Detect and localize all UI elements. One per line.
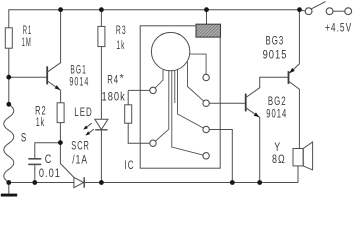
transistor Q1 BG1 bar <box>46 66 48 84</box>
svg-text:V: V <box>346 22 352 35</box>
svg-text:1: 1 <box>76 154 81 167</box>
IC trace to pad R3 <box>178 70 204 128</box>
node top rail electrode <box>204 7 209 12</box>
svg-text:1: 1 <box>102 90 107 103</box>
node BG2 emitter bottom <box>257 180 262 185</box>
svg-text:/: / <box>72 154 74 167</box>
svg-text:G: G <box>272 35 278 48</box>
svg-text:0: 0 <box>39 167 44 180</box>
wire speaker bottom lead <box>297 166 299 183</box>
wire R4 top lead <box>127 90 129 104</box>
svg-text:1: 1 <box>79 76 83 89</box>
svg-text:k: k <box>121 39 124 53</box>
resistor R2 <box>57 103 64 123</box>
svg-text:k: k <box>41 116 45 129</box>
wire pad R2 to BG2 base <box>209 102 245 104</box>
value 1M <box>22 36 31 50</box>
IC trace to pad R2 <box>188 62 204 101</box>
value 0.01 <box>39 167 60 180</box>
IC trace stub <box>174 71 176 103</box>
arrowhead LED 1 <box>83 126 88 130</box>
wire pad R3 to bottom rail <box>209 130 232 183</box>
label BG3 <box>266 35 284 48</box>
svg-text:C: C <box>77 140 82 153</box>
capacitor C plate top <box>28 158 41 160</box>
value 9014 BG2 <box>266 108 286 121</box>
svg-text:2: 2 <box>281 95 286 108</box>
label R1 <box>23 24 32 38</box>
battery terminal circle 1 <box>326 8 333 15</box>
sensor S wavy line <box>4 104 14 182</box>
svg-text:C: C <box>45 153 52 166</box>
svg-text:8: 8 <box>108 90 113 103</box>
wire top rail with left corner down to R1 <box>9 10 300 28</box>
IC pad R4 <box>203 153 209 159</box>
diode LED bar <box>95 129 107 131</box>
svg-text:1: 1 <box>36 116 40 129</box>
label R3 <box>116 24 126 38</box>
svg-text:k: k <box>120 90 125 103</box>
svg-text:5: 5 <box>281 48 286 61</box>
label R2 <box>35 105 46 118</box>
svg-text:R: R <box>116 24 121 38</box>
transistor Q2 BG2 bar <box>245 94 247 112</box>
wire SCR gate <box>60 143 74 178</box>
wire R3 bottom to LED <box>100 47 102 120</box>
resistor R3 top lead <box>100 10 102 27</box>
transistor Q3 BG3 bar <box>288 71 290 84</box>
svg-text:C: C <box>128 159 134 172</box>
svg-text:1: 1 <box>277 108 282 121</box>
svg-text:R: R <box>84 140 89 153</box>
label C <box>45 153 52 166</box>
svg-text:0: 0 <box>269 48 274 61</box>
svg-text:+: + <box>325 22 330 35</box>
IC pad R2 <box>203 100 209 106</box>
svg-text:M: M <box>26 36 31 50</box>
wire BG2 emitter to bottom rail <box>246 108 260 183</box>
svg-text:4: 4 <box>84 76 88 89</box>
label SCR <box>71 140 89 153</box>
svg-text:4: 4 <box>114 74 119 87</box>
thyristor SCR triangle <box>74 177 84 187</box>
label BG1 <box>70 64 85 78</box>
svg-text:G: G <box>274 95 280 108</box>
LED arrow 1 <box>84 123 92 129</box>
resistor R3 <box>98 26 105 46</box>
value 8 ohm <box>272 153 285 167</box>
node sensor top <box>6 102 11 107</box>
IC module board outline <box>140 26 220 168</box>
label S <box>21 132 27 145</box>
svg-text:E: E <box>80 107 85 120</box>
value 9015 <box>263 48 287 61</box>
arrowhead LED 2 <box>85 131 90 135</box>
IC trace to pad L2 <box>156 70 169 141</box>
node LED bottom <box>99 180 104 185</box>
svg-text:L: L <box>74 107 79 120</box>
svg-text:1: 1 <box>55 167 60 180</box>
wire left line down <box>8 77 10 104</box>
wire BG1 collector to top rail <box>47 10 60 72</box>
IC pad R3 <box>203 126 209 132</box>
svg-text:8: 8 <box>272 153 277 167</box>
svg-text:9: 9 <box>263 48 268 61</box>
arrow BG3 emitter <box>289 68 295 73</box>
IC pad L1 <box>150 87 156 93</box>
IC pad R1 <box>203 74 209 80</box>
node top rail BG3 <box>297 7 302 12</box>
value /1A <box>72 154 87 167</box>
wire between terminals <box>333 10 345 12</box>
wire top rail to electrode <box>206 10 208 25</box>
svg-text:*: * <box>120 72 125 84</box>
node top rail R3 <box>99 7 104 12</box>
IC trace to pad R4 <box>172 71 203 155</box>
svg-text:1: 1 <box>275 48 280 61</box>
value 180k <box>102 90 126 103</box>
svg-text:5: 5 <box>340 22 345 35</box>
speaker Y cone <box>303 142 312 170</box>
ground <box>8 183 10 194</box>
svg-text:.: . <box>45 167 48 180</box>
ground bar <box>1 194 17 197</box>
svg-text:3: 3 <box>279 35 284 48</box>
wire bottom rail left of SCR <box>9 182 74 184</box>
IC trace to pad L1 <box>155 70 163 88</box>
svg-text:B: B <box>266 35 271 48</box>
label R4 <box>107 74 118 87</box>
label Y <box>274 141 280 155</box>
svg-text:9: 9 <box>69 76 73 89</box>
svg-text:Ω: Ω <box>278 153 285 167</box>
wire R1 bottom to base node <box>8 48 10 77</box>
wire BG3 emitter to top rail <box>289 10 300 74</box>
svg-text:0: 0 <box>271 108 276 121</box>
svg-text:0: 0 <box>49 167 54 180</box>
wire C bottom lead <box>34 165 36 182</box>
label +4.5V <box>325 22 351 35</box>
arrow BG2 emitter <box>254 112 260 117</box>
wire BG1 emitter <box>47 81 60 103</box>
switch pole circle <box>305 8 312 15</box>
wire bottom rail right of SCR <box>84 182 298 184</box>
wire R4 bottom to IC pad <box>128 123 150 143</box>
LED arrow 2 <box>86 129 94 135</box>
battery terminal circle 2 <box>345 8 352 15</box>
label BG2 <box>268 95 286 108</box>
node gate junction <box>58 140 63 145</box>
thyristor SCR cathode bar <box>83 177 85 187</box>
svg-text:D: D <box>86 107 92 120</box>
svg-text:R: R <box>107 74 113 87</box>
svg-text:B: B <box>268 95 273 108</box>
switch lever <box>311 2 325 9</box>
node IC R3 wire bottom <box>230 180 235 185</box>
wire gate node to capacitor <box>35 143 61 158</box>
label LED <box>74 107 92 120</box>
wire R2 bottom to gate node <box>59 123 61 143</box>
svg-text:4: 4 <box>282 108 287 121</box>
label IC <box>125 159 134 172</box>
svg-text:9: 9 <box>266 108 271 121</box>
value 1k R2 <box>36 116 45 129</box>
svg-text:0: 0 <box>74 76 78 89</box>
svg-text:S: S <box>21 132 27 145</box>
node ground <box>6 180 11 185</box>
svg-text:S: S <box>71 140 76 153</box>
wire R4 top to IC pad <box>128 89 150 91</box>
wire BG2 collector up to BG3 base <box>246 77 288 97</box>
value 1k R3 <box>116 39 124 53</box>
capacitor C plate bottom <box>28 163 41 165</box>
resistor R4 <box>125 105 132 123</box>
svg-text:A: A <box>81 154 87 167</box>
diode LED triangle <box>95 119 108 129</box>
wire base of BG1 <box>9 76 47 78</box>
resistor R1 <box>5 28 12 48</box>
svg-text:0: 0 <box>114 90 119 103</box>
svg-text:I: I <box>125 159 127 172</box>
svg-text:.: . <box>337 22 339 35</box>
wire rail to switch <box>300 10 306 11</box>
arrow BG1 emitter <box>55 85 61 90</box>
wire LED to bottom rail <box>100 130 102 183</box>
IC trace to pad R1 <box>190 54 206 74</box>
value 9014 BG1 <box>69 76 88 89</box>
svg-text:1: 1 <box>22 36 25 50</box>
touch electrode hatched pad <box>196 24 221 37</box>
svg-text:4: 4 <box>331 22 336 35</box>
speaker Y box <box>293 149 303 166</box>
svg-text:1: 1 <box>116 39 120 53</box>
wire BG3 collector to speaker <box>289 81 300 149</box>
node BG1 base <box>6 75 11 80</box>
node top rail BG1 collector <box>58 7 63 12</box>
IC pad L2 <box>150 140 156 146</box>
IC chip blob circle <box>151 32 189 70</box>
node capacitor bottom <box>32 180 37 185</box>
svg-text:3: 3 <box>122 24 126 38</box>
